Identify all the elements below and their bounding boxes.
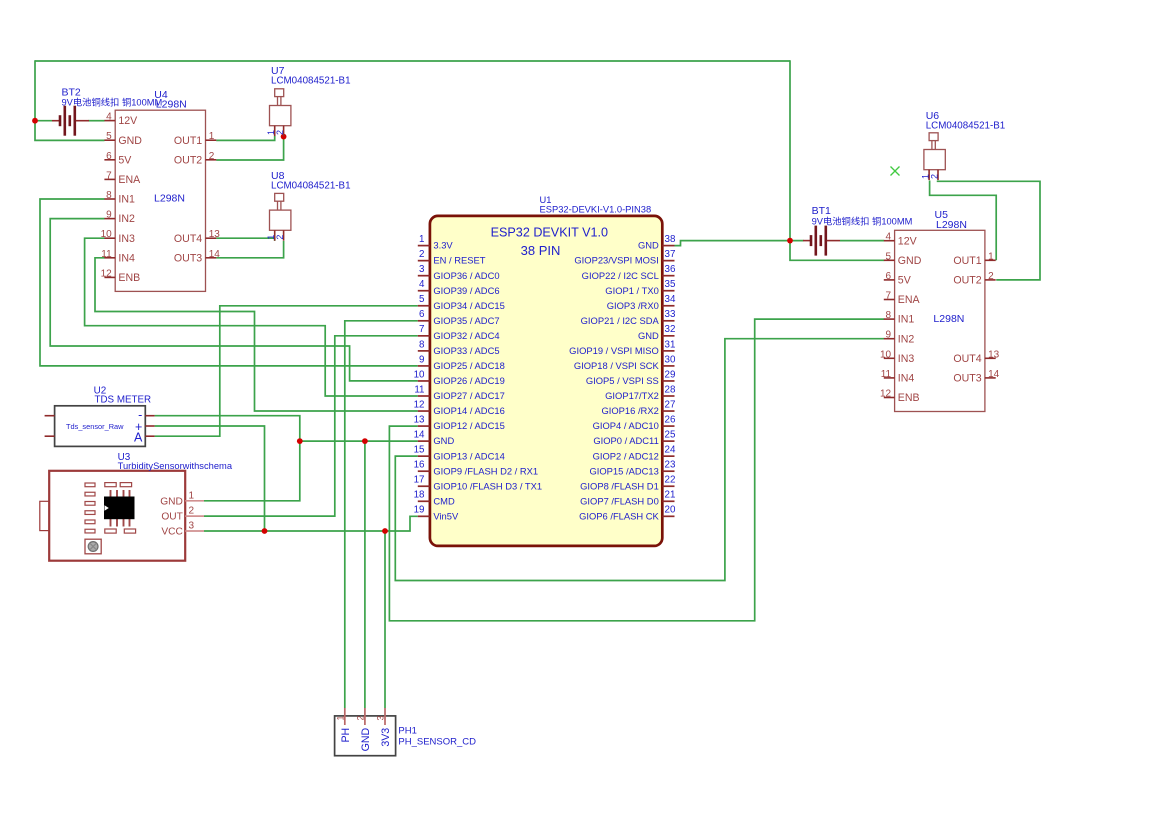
svg-text:14: 14	[414, 430, 425, 441]
svg-text:2: 2	[419, 249, 424, 260]
svg-text:GIOP13 / ADC14: GIOP13 / ADC14	[433, 450, 504, 461]
svg-text:25: 25	[665, 430, 676, 441]
svg-text:IN3: IN3	[898, 353, 915, 365]
svg-text:9V电池铜线扣 铜100MM: 9V电池铜线扣 铜100MM	[812, 215, 913, 226]
U1 pin 29 GIOP5 / VSPI SS	[662, 380, 674, 382]
wire U1 GIOP35 to PH1 PH	[345, 321, 418, 708]
svg-text:4: 4	[886, 232, 892, 243]
svg-text:VCC: VCC	[161, 527, 183, 538]
svg-text:34: 34	[665, 294, 676, 305]
U5 pin 5 GND	[884, 259, 895, 261]
wire U1 GIOP13 to U5 IN2	[395, 339, 884, 581]
svg-text:8: 8	[419, 339, 425, 350]
wire BT2 left lead	[35, 120, 52, 122]
U1 pin 15 GIOP13 / ADC14	[418, 455, 430, 457]
junction BT1/GND/pin38	[787, 238, 793, 244]
svg-text:GIOP16 /RX2: GIOP16 /RX2	[601, 405, 658, 416]
svg-text:BT1: BT1	[812, 205, 831, 217]
svg-text:LCM04084521-B1: LCM04084521-B1	[271, 76, 351, 87]
svg-text:8: 8	[886, 310, 892, 321]
svg-text:20: 20	[665, 505, 676, 516]
U5 pin 10 IN3	[884, 357, 895, 359]
U5 pin 7 ENA	[884, 299, 895, 301]
U1 pin 21 GIOP7 /FLASH D0	[662, 500, 674, 502]
svg-text:GIOP9 /FLASH D2 / RX1: GIOP9 /FLASH D2 / RX1	[433, 465, 538, 476]
battery BT1 9V	[803, 226, 840, 256]
U4 pin 9 IN2	[104, 218, 115, 220]
svg-text:OUT3: OUT3	[174, 252, 202, 264]
svg-text:OUT4: OUT4	[953, 353, 981, 365]
U5 pin 11 IN4	[884, 377, 895, 379]
svg-text:GIOP6 /FLASH CK: GIOP6 /FLASH CK	[579, 510, 659, 521]
svg-text:36: 36	[665, 264, 676, 275]
svg-text:GIOP23/VSPI MOSI: GIOP23/VSPI MOSI	[574, 255, 658, 266]
svg-text:GIOP32 / ADC4: GIOP32 / ADC4	[433, 330, 499, 341]
svg-text:31: 31	[665, 339, 676, 350]
svg-text:ENA: ENA	[118, 174, 141, 186]
svg-text:PH: PH	[340, 728, 352, 743]
svg-text:CMD: CMD	[433, 495, 455, 506]
U1 pin 33 GIOP21 / I2C SDA	[662, 320, 674, 322]
U1 pin 25 GIOP0 / ADC11	[662, 440, 674, 442]
svg-text:28: 28	[665, 384, 676, 395]
U1 pin 5 GIOP34 / ADC15	[418, 305, 430, 307]
svg-text:IN2: IN2	[898, 333, 915, 345]
svg-text:GIOP27 / ADC17: GIOP27 / ADC17	[433, 390, 504, 401]
svg-text:17: 17	[414, 475, 425, 486]
U4 pin 4 12V	[104, 120, 115, 122]
svg-text:14: 14	[209, 249, 221, 260]
svg-text:35: 35	[665, 279, 676, 290]
U1 pin 16 GIOP9 /FLASH D2 / RX1	[418, 470, 430, 472]
svg-text:GIOP35 / ADC7: GIOP35 / ADC7	[433, 315, 499, 326]
wire U4 OUT2 to U7 pin2	[216, 136, 283, 160]
U4 pin 1 OUT1	[206, 139, 217, 141]
svg-text:TDS METER: TDS METER	[95, 395, 152, 406]
svg-text:6: 6	[419, 309, 425, 320]
svg-text:OUT4: OUT4	[174, 233, 202, 245]
svg-text:OUT3: OUT3	[953, 373, 981, 385]
wire U4 OUT1 to U7 pin1	[216, 136, 275, 141]
svg-text:5V: 5V	[898, 275, 912, 287]
svg-text:PH_SENSOR_CD: PH_SENSOR_CD	[398, 737, 476, 748]
U1 pin 8 GIOP33 / ADC5	[418, 350, 430, 352]
svg-text:GND: GND	[638, 240, 659, 251]
battery BT2 9V	[52, 106, 89, 136]
U1 pin 17 GIOP10 /FLASH D3 / TX1	[418, 485, 430, 487]
svg-text:ENB: ENB	[118, 272, 140, 284]
wire U4 OUT3 to U8 pin2	[216, 241, 283, 258]
PH1 pin 1 PH	[344, 708, 346, 725]
svg-text:11: 11	[101, 249, 112, 260]
U1 pin 6 GIOP35 / ADC7	[418, 320, 430, 322]
wire GND top bus	[35, 60, 790, 62]
MCU U1 ESP32 DEVKIT	[430, 216, 662, 546]
svg-text:8: 8	[106, 190, 112, 201]
svg-text:10: 10	[414, 369, 425, 380]
svg-text:38 PIN: 38 PIN	[521, 243, 561, 258]
svg-text:GIOP17/TX2: GIOP17/TX2	[605, 390, 659, 401]
U2 left pin stub b	[45, 435, 55, 437]
wire U4 IN3 to U1 GIOP27	[85, 238, 418, 396]
svg-text:GIOP34 / ADC15: GIOP34 / ADC15	[433, 300, 504, 311]
svg-text:16: 16	[414, 460, 425, 471]
svg-text:12: 12	[880, 389, 892, 400]
U1 pin 31 GIOP19 / VSPI MISO	[662, 350, 674, 352]
svg-text:11: 11	[881, 369, 892, 380]
svg-text:29: 29	[665, 369, 676, 380]
svg-text:GIOP8 /FLASH D1: GIOP8 /FLASH D1	[580, 480, 659, 491]
PH1 pin 3 3V3	[384, 708, 386, 725]
U3 left notch	[40, 501, 49, 530]
U5 pin 13 OUT4	[985, 357, 996, 359]
U4 pin 12 ENB	[104, 276, 115, 278]
wire U1 GND pin38 to BT1	[675, 241, 804, 246]
svg-text:GIOP36 / ADC0: GIOP36 / ADC0	[433, 270, 499, 281]
wire U6 pin1 to U5 OUT1	[930, 181, 997, 261]
svg-text:6: 6	[106, 151, 112, 162]
svg-text:13: 13	[414, 414, 425, 425]
svg-text:LCM04084521-B1: LCM04084521-B1	[926, 120, 1006, 131]
wire U4 IN4 to U1 GIOP14	[95, 258, 418, 411]
U2 pin plus	[145, 425, 154, 427]
no-connect marker X	[891, 167, 900, 176]
svg-text:GIOP12 / ADC15: GIOP12 / ADC15	[433, 420, 504, 431]
svg-text:7: 7	[419, 324, 424, 335]
svg-text:2: 2	[275, 235, 285, 240]
svg-text:GIOP39 / ADC6: GIOP39 / ADC6	[433, 285, 499, 296]
svg-text:ESP32-DEVKI-V1.0-PIN38: ESP32-DEVKI-V1.0-PIN38	[540, 205, 652, 215]
U1 pin 20 GIOP6 /FLASH CK	[662, 515, 674, 517]
svg-text:ENA: ENA	[898, 294, 921, 306]
U1 pin 35 GIOP1 / TX0	[662, 290, 674, 292]
svg-text:24: 24	[665, 445, 676, 456]
svg-text:IN3: IN3	[118, 233, 135, 245]
svg-text:18: 18	[414, 490, 425, 501]
svg-text:GIOP14 / ADC16: GIOP14 / ADC16	[433, 405, 504, 416]
U2 left pin stub a	[45, 415, 55, 417]
svg-text:Tds_sensor_Raw: Tds_sensor_Raw	[66, 422, 124, 431]
svg-text:GND: GND	[160, 496, 183, 507]
svg-text:GND: GND	[118, 135, 142, 147]
svg-text:Vin5V: Vin5V	[433, 510, 459, 521]
svg-text:GND: GND	[360, 727, 372, 751]
junction VCC/PH1	[382, 528, 388, 534]
PH1 pin 2 GND	[364, 708, 366, 725]
U3 IC body	[105, 497, 135, 519]
svg-text:12: 12	[414, 399, 425, 410]
svg-text:2: 2	[930, 174, 940, 179]
svg-text:A: A	[134, 430, 143, 444]
U3 IC pins	[110, 490, 112, 498]
svg-text:21: 21	[665, 490, 676, 501]
U1 pin 19 Vin5V	[418, 515, 430, 517]
svg-text:13: 13	[209, 229, 221, 240]
svg-text:GND: GND	[638, 330, 659, 341]
svg-text:GIOP2 / ADC12: GIOP2 / ADC12	[593, 450, 659, 461]
U1 pin 28 GIOP17/TX2	[662, 395, 674, 397]
svg-text:3: 3	[419, 264, 425, 275]
sensor U2 TDS METER	[55, 406, 146, 447]
svg-text:6: 6	[886, 271, 892, 282]
svg-text:1: 1	[335, 716, 345, 721]
wire U2 minus to U3 GND (GND net)	[155, 416, 300, 501]
svg-text:GIOP19 / VSPI MISO: GIOP19 / VSPI MISO	[569, 345, 659, 356]
U1 pin 11 GIOP27 / ADC17	[418, 395, 430, 397]
svg-text:9: 9	[419, 354, 424, 365]
U1 pin 34 GIOP3 /RX0	[662, 305, 674, 307]
U5 pin 14 OUT3	[985, 377, 996, 379]
svg-text:37: 37	[665, 249, 676, 260]
svg-text:1: 1	[988, 251, 994, 262]
svg-text:OUT: OUT	[161, 512, 183, 523]
wire U4 OUT4 to U8 pin1	[216, 238, 275, 241]
svg-text:1: 1	[419, 234, 424, 245]
svg-text:2: 2	[209, 151, 215, 162]
svg-text:33: 33	[665, 309, 676, 320]
wire GND to PH1 GND	[364, 441, 366, 708]
svg-text:2: 2	[988, 271, 994, 282]
U1 pin 24 GIOP2 / ADC12	[662, 455, 674, 457]
U1 pin 32 GND	[662, 335, 674, 337]
wire U1 GIOP34 to U2 A	[155, 306, 418, 436]
U5 pin 8 IN1	[884, 318, 895, 320]
wire BT2 plus to U4 12V	[89, 120, 105, 122]
svg-text:TurbiditySensorwithschema: TurbiditySensorwithschema	[118, 461, 233, 471]
svg-text:3V3: 3V3	[380, 728, 392, 747]
U5 pin 2 OUT2	[985, 279, 996, 281]
svg-text:LCM04084521-B1: LCM04084521-B1	[271, 180, 351, 191]
wire BT1 plus to U5 12V	[840, 240, 884, 242]
junction BT2/GND	[32, 118, 38, 124]
svg-text:1: 1	[189, 490, 195, 501]
svg-text:1: 1	[209, 131, 215, 142]
svg-text:L298N: L298N	[933, 313, 964, 325]
U1 pin 22 GIOP8 /FLASH D1	[662, 485, 674, 487]
svg-text:2: 2	[275, 130, 285, 135]
svg-text:9V电池铜线扣 铜100MM: 9V电池铜线扣 铜100MM	[62, 97, 163, 108]
U1 pin 14 GND	[418, 440, 430, 442]
svg-text:OUT2: OUT2	[953, 275, 981, 287]
svg-text:13: 13	[988, 349, 1000, 360]
U4 pin 7 ENA	[104, 178, 115, 180]
svg-text:19: 19	[414, 505, 425, 516]
svg-text:GIOP33 / ADC5: GIOP33 / ADC5	[433, 345, 499, 356]
svg-text:BT2: BT2	[62, 87, 81, 99]
junction U7 pin2/OUT2	[281, 134, 287, 140]
U3 screw hole	[85, 539, 101, 554]
U5 pin 9 IN2	[884, 338, 895, 340]
U5 pin 1 OUT1	[985, 259, 996, 261]
svg-text:IN1: IN1	[898, 314, 915, 326]
svg-text:GIOP18 / VSPI SCK: GIOP18 / VSPI SCK	[574, 360, 660, 371]
U1 pin 2 EN / RESET	[418, 260, 430, 262]
svg-text:GND: GND	[898, 255, 922, 267]
svg-text:GIOP5 / VSPI SS: GIOP5 / VSPI SS	[586, 375, 659, 386]
svg-text:4: 4	[419, 279, 425, 290]
connector U8 LCM04084521-B1	[275, 193, 284, 201]
svg-text:GIOP1 / TX0: GIOP1 / TX0	[605, 285, 659, 296]
wire U4 IN2 to U1 GIOP26	[50, 219, 418, 381]
U1 pin 37 GIOP23/VSPI MOSI	[662, 260, 674, 262]
svg-text:22: 22	[665, 475, 676, 486]
wire GND row to U1 pin14	[300, 440, 418, 442]
U1 pin 4 GIOP39 / ADC6	[418, 290, 430, 292]
svg-text:11: 11	[414, 384, 424, 395]
connector U6 LCM04084521-B1	[929, 133, 938, 141]
U1 pin 26 GIOP4 / ADC10	[662, 425, 674, 427]
wire U6 pin2 to U5 OUT2	[938, 181, 1040, 280]
U1 pin 38 GND	[662, 245, 674, 247]
svg-text:5: 5	[106, 131, 112, 142]
svg-text:GIOP25 / ADC18: GIOP25 / ADC18	[433, 360, 504, 371]
U4 pin 8 IN1	[104, 198, 115, 200]
svg-text:GIOP7 /FLASH D0: GIOP7 /FLASH D0	[580, 495, 659, 506]
svg-text:GIOP26 / ADC19: GIOP26 / ADC19	[433, 375, 504, 386]
U1 pin 36 GIOP22 / I2C SCL	[662, 275, 674, 277]
U5 pin 6 5V	[884, 279, 895, 281]
svg-text:GIOP0 / ADC11: GIOP0 / ADC11	[593, 435, 658, 446]
svg-text:12V: 12V	[898, 235, 918, 247]
U4 pin 13 OUT4	[206, 237, 217, 239]
wire U1 GIOP32 to U3 OUT	[204, 336, 418, 516]
wire GND bus to U5 GND	[790, 60, 884, 260]
svg-text:2: 2	[189, 506, 195, 517]
svg-text:9: 9	[106, 210, 112, 221]
svg-text:7: 7	[106, 170, 112, 181]
U1 pin 27 GIOP16 /RX2	[662, 410, 674, 412]
svg-text:5V: 5V	[118, 154, 132, 166]
svg-text:GIOP21 / I2C SDA: GIOP21 / I2C SDA	[581, 315, 660, 326]
svg-text:IN4: IN4	[118, 252, 135, 264]
U4 pin 6 5V	[104, 159, 115, 161]
svg-text:U1: U1	[540, 195, 552, 205]
svg-text:L298N: L298N	[936, 219, 967, 231]
U2 pin minus	[145, 415, 154, 417]
sensor U3 TurbiditySensorwithschema	[49, 471, 185, 561]
svg-text:IN2: IN2	[118, 213, 135, 225]
svg-text:GND: GND	[433, 435, 454, 446]
svg-text:GIOP4 / ADC10: GIOP4 / ADC10	[593, 420, 659, 431]
wire VCC to U2 plus	[155, 426, 265, 531]
svg-text:3: 3	[189, 521, 195, 532]
junction VCC/TDS+	[262, 528, 268, 534]
svg-text:5: 5	[419, 294, 425, 305]
svg-text:L298N: L298N	[156, 99, 187, 111]
svg-text:ENB: ENB	[898, 392, 920, 404]
U4 pin 2 OUT2	[206, 159, 217, 161]
junction GND net	[297, 438, 303, 444]
U4 pin 5 GND	[104, 139, 115, 141]
U1 pin 12 GIOP14 / ADC16	[418, 410, 430, 412]
U1 pin 30 GIOP18 / VSPI SCK	[662, 365, 674, 367]
svg-text:32: 32	[665, 324, 676, 335]
L298N module U4	[115, 110, 205, 291]
svg-text:7: 7	[886, 291, 892, 302]
U4 pin 10 IN3	[104, 237, 115, 239]
U1 pin 18 CMD	[418, 500, 430, 502]
U3 bottom pads	[105, 529, 116, 533]
U4 pin 11 IN4	[104, 257, 115, 259]
U5 pin 4 12V	[884, 240, 895, 242]
svg-text:23: 23	[665, 460, 676, 471]
svg-text:ESP32 DEVKIT V1.0: ESP32 DEVKIT V1.0	[491, 226, 608, 240]
svg-text:GIOP3 /RX0: GIOP3 /RX0	[607, 300, 659, 311]
U3 pin 3 VCC	[185, 530, 204, 532]
svg-text:12: 12	[101, 268, 113, 279]
L298N module U5	[895, 230, 985, 411]
U1 pin 13 GIOP12 / ADC15	[418, 425, 430, 427]
svg-text:10: 10	[880, 349, 892, 360]
U3 pad column	[85, 483, 95, 487]
U1 pin 9 GIOP25 / ADC18	[418, 365, 430, 367]
U1 pin 3 GIOP36 / ADC0	[418, 275, 430, 277]
U3 pin 2 OUT	[185, 515, 204, 517]
svg-text:IN1: IN1	[118, 194, 135, 206]
wire U1 GIOP12 to U5 IN1	[389, 319, 884, 621]
connector U7 LCM04084521-B1	[275, 89, 284, 97]
svg-text:10: 10	[101, 229, 113, 240]
svg-text:26: 26	[665, 414, 676, 425]
wire BT2 minus to U4 GND	[35, 60, 105, 140]
U1 pin 1 3.3V	[418, 245, 430, 247]
svg-text:PH1: PH1	[398, 726, 416, 737]
svg-text:15: 15	[414, 445, 425, 456]
svg-text:EN / RESET: EN / RESET	[433, 255, 485, 266]
svg-text:GIOP15 /ADC13: GIOP15 /ADC13	[589, 465, 658, 476]
U1 pin 7 GIOP32 / ADC4	[418, 335, 430, 337]
svg-text:OUT1: OUT1	[174, 135, 202, 147]
U1 pin 10 GIOP26 / ADC19	[418, 380, 430, 382]
svg-text:27: 27	[665, 399, 676, 410]
svg-text:5: 5	[886, 251, 892, 262]
U4 pin 14 OUT3	[206, 257, 217, 259]
U5 pin 12 ENB	[884, 397, 895, 399]
svg-text:30: 30	[665, 354, 676, 365]
wire U4 IN1 to U1 GIOP25	[40, 199, 418, 366]
svg-text:9: 9	[886, 330, 892, 341]
svg-text:3: 3	[376, 716, 386, 721]
svg-text:3.3V: 3.3V	[433, 240, 453, 251]
svg-text:2: 2	[355, 716, 365, 721]
svg-text:L298N: L298N	[154, 193, 185, 205]
svg-text:IN4: IN4	[898, 373, 915, 385]
connector PH1 PH_SENSOR_CD	[335, 716, 396, 756]
U1 pin 23 GIOP15 /ADC13	[662, 470, 674, 472]
svg-text:12V: 12V	[118, 115, 138, 127]
U3 top pads	[105, 483, 116, 487]
svg-text:38: 38	[665, 234, 676, 245]
svg-text:OUT1: OUT1	[953, 255, 981, 267]
junction GND/PH1	[362, 438, 368, 444]
svg-text:4: 4	[106, 112, 112, 123]
svg-text:OUT2: OUT2	[174, 154, 202, 166]
svg-text:GIOP10 /FLASH D3 / TX1: GIOP10 /FLASH D3 / TX1	[433, 480, 542, 491]
svg-text:14: 14	[988, 369, 1000, 380]
wire U1 Vin5V to U3 VCC (VCC net)	[204, 516, 418, 531]
wire VCC to PH1 3V3	[384, 531, 386, 708]
U2 pin A	[145, 435, 154, 437]
svg-text:GIOP22 / I2C SCL: GIOP22 / I2C SCL	[582, 270, 659, 281]
U3 pin 1 GND	[185, 500, 204, 502]
